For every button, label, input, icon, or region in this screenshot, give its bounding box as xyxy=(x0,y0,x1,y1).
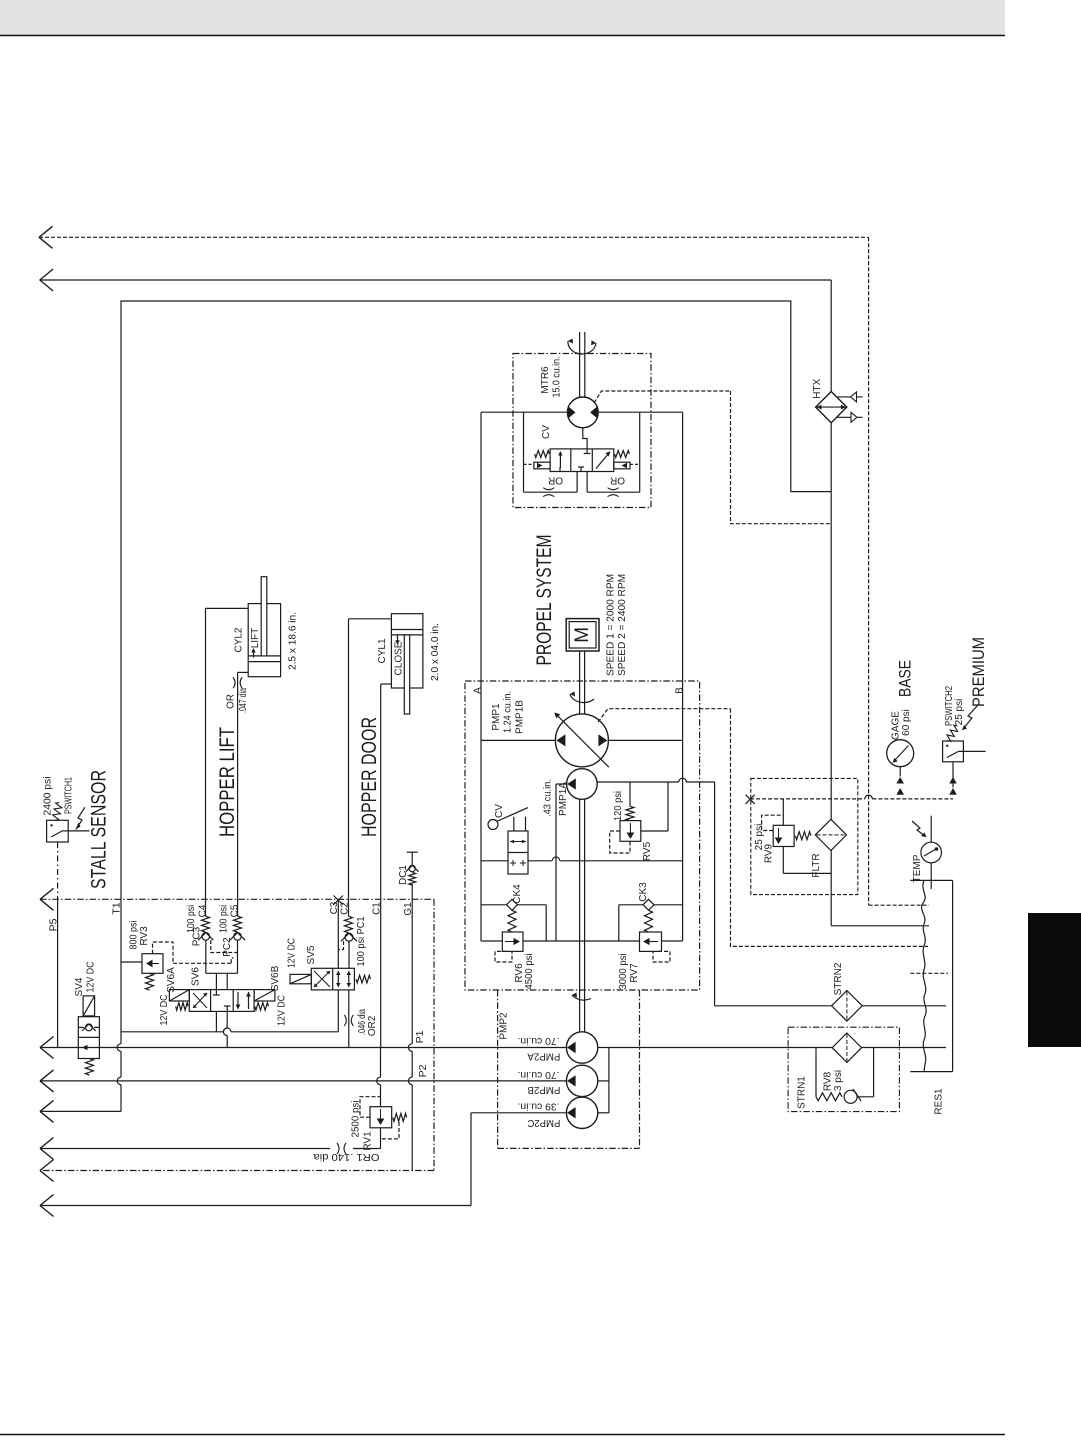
svg-text:RV8: RV8 xyxy=(822,1071,833,1091)
svg-text:PC3: PC3 xyxy=(192,926,203,946)
svg-text:FLTR: FLTR xyxy=(811,853,822,877)
svg-text:PMP1A: PMP1A xyxy=(558,782,569,816)
svg-text:SV5: SV5 xyxy=(306,945,317,964)
svg-text:A: A xyxy=(472,687,483,694)
svg-text:RV1: RV1 xyxy=(363,1131,374,1151)
svg-text:PMP2A: PMP2A xyxy=(527,1051,560,1062)
svg-text:HTX: HTX xyxy=(812,378,823,398)
svg-text:PMP2B: PMP2B xyxy=(527,1084,560,1095)
svg-text:M: M xyxy=(572,627,593,643)
svg-text:1.24 cu.in.: 1.24 cu.in. xyxy=(503,691,514,733)
svg-text:C4: C4 xyxy=(198,904,209,917)
svg-text:CYL2: CYL2 xyxy=(234,627,245,652)
svg-text:PROPEL SYSTEM: PROPEL SYSTEM xyxy=(532,535,556,666)
svg-text:PMP1: PMP1 xyxy=(491,703,502,731)
svg-text:PC2: PC2 xyxy=(222,937,233,957)
svg-text:RV7: RV7 xyxy=(629,963,640,983)
svg-text:3 psi: 3 psi xyxy=(833,1070,844,1091)
svg-text:BASE: BASE xyxy=(896,660,915,697)
svg-text:12V DC: 12V DC xyxy=(287,938,298,968)
svg-text:2400 psi: 2400 psi xyxy=(43,777,54,816)
svg-text:3000 psi: 3000 psi xyxy=(618,954,629,990)
svg-text:MTR6: MTR6 xyxy=(540,366,551,394)
svg-text:P2: P2 xyxy=(417,1064,429,1077)
svg-text:CLOSE: CLOSE xyxy=(394,641,405,675)
svg-text:15.0 cu.in.: 15.0 cu.in. xyxy=(552,357,563,398)
svg-text:.39 cu.in.: .39 cu.in. xyxy=(518,1101,560,1112)
svg-text:CV: CV xyxy=(494,804,505,818)
svg-text:P1: P1 xyxy=(414,1030,426,1043)
svg-text:12V DC: 12V DC xyxy=(159,995,170,1026)
svg-text:.43 cu.in.: .43 cu.in. xyxy=(542,779,553,817)
svg-text:CYL1: CYL1 xyxy=(377,638,388,663)
svg-text:PMP1B: PMP1B xyxy=(515,700,526,734)
svg-text:12V DC: 12V DC xyxy=(86,962,97,993)
svg-text:CV: CV xyxy=(541,425,552,439)
svg-text:STRN2: STRN2 xyxy=(833,962,844,995)
svg-text:C2: C2 xyxy=(339,902,350,915)
svg-text:DC1: DC1 xyxy=(398,865,409,885)
svg-text:C5: C5 xyxy=(230,904,241,917)
svg-text:CK4: CK4 xyxy=(512,884,523,904)
svg-text:GAGE: GAGE xyxy=(890,711,901,740)
svg-text:STRN1: STRN1 xyxy=(796,1076,807,1109)
svg-text:4500 psi: 4500 psi xyxy=(524,954,535,990)
svg-text:2.0 x 04.0 in.: 2.0 x 04.0 in. xyxy=(430,623,441,681)
svg-text:.047 dia: .047 dia xyxy=(238,688,249,713)
svg-text:SV6B: SV6B xyxy=(270,965,281,991)
svg-text:60 psi: 60 psi xyxy=(901,709,912,736)
svg-text:STALL SENSOR: STALL SENSOR xyxy=(88,770,111,889)
svg-text:SPEED 2 = 2400 RPM: SPEED 2 = 2400 RPM xyxy=(616,574,628,676)
svg-text:100 psi PC1: 100 psi PC1 xyxy=(356,916,367,966)
svg-text:.70 cu.in.: .70 cu.in. xyxy=(518,1035,560,1046)
svg-text:SPEED 1 = 2000 RPM: SPEED 1 = 2000 RPM xyxy=(605,574,617,676)
svg-text:TEMP: TEMP xyxy=(912,854,923,882)
svg-text:T1: T1 xyxy=(111,902,123,914)
svg-text:LIFT: LIFT xyxy=(250,628,261,649)
svg-text:HOPPER LIFT: HOPPER LIFT xyxy=(215,727,239,837)
svg-text:OR: OR xyxy=(226,694,237,709)
svg-text:CK3: CK3 xyxy=(638,882,649,902)
svg-text:OR1 .140 dia: OR1 .140 dia xyxy=(313,1151,379,1162)
svg-text:.70 cu.in.: .70 cu.in. xyxy=(518,1069,560,1080)
svg-text:PSWITCH1: PSWITCH1 xyxy=(64,777,75,814)
svg-text:100 psi: 100 psi xyxy=(219,905,230,933)
svg-text:OR: OR xyxy=(548,475,563,486)
svg-text:PMP2C: PMP2C xyxy=(527,1117,560,1128)
svg-text:SV6: SV6 xyxy=(191,967,202,986)
svg-text:RV5: RV5 xyxy=(642,841,653,861)
svg-text:25 psi: 25 psi xyxy=(954,699,965,726)
svg-text:2.5 x 18.6 in.: 2.5 x 18.6 in. xyxy=(287,612,298,670)
svg-text:RV9: RV9 xyxy=(763,843,774,863)
svg-text:PMP2: PMP2 xyxy=(499,1012,510,1040)
svg-text:OR: OR xyxy=(610,475,625,486)
svg-text:SV6A: SV6A xyxy=(166,967,177,993)
svg-text:800 psi: 800 psi xyxy=(129,921,140,950)
svg-text:120 psi: 120 psi xyxy=(613,791,624,821)
svg-text:2500 psi: 2500 psi xyxy=(351,1101,362,1138)
svg-text:RES1: RES1 xyxy=(933,1088,944,1115)
svg-text:RV3: RV3 xyxy=(139,926,150,946)
svg-text:PREMIUM: PREMIUM xyxy=(969,637,988,707)
svg-text:SV4: SV4 xyxy=(74,977,85,996)
svg-text:HOPPER DOOR: HOPPER DOOR xyxy=(357,717,381,837)
svg-text:B: B xyxy=(674,687,685,694)
svg-text:OR2: OR2 xyxy=(367,1015,378,1036)
svg-text:12V DC: 12V DC xyxy=(276,995,287,1026)
